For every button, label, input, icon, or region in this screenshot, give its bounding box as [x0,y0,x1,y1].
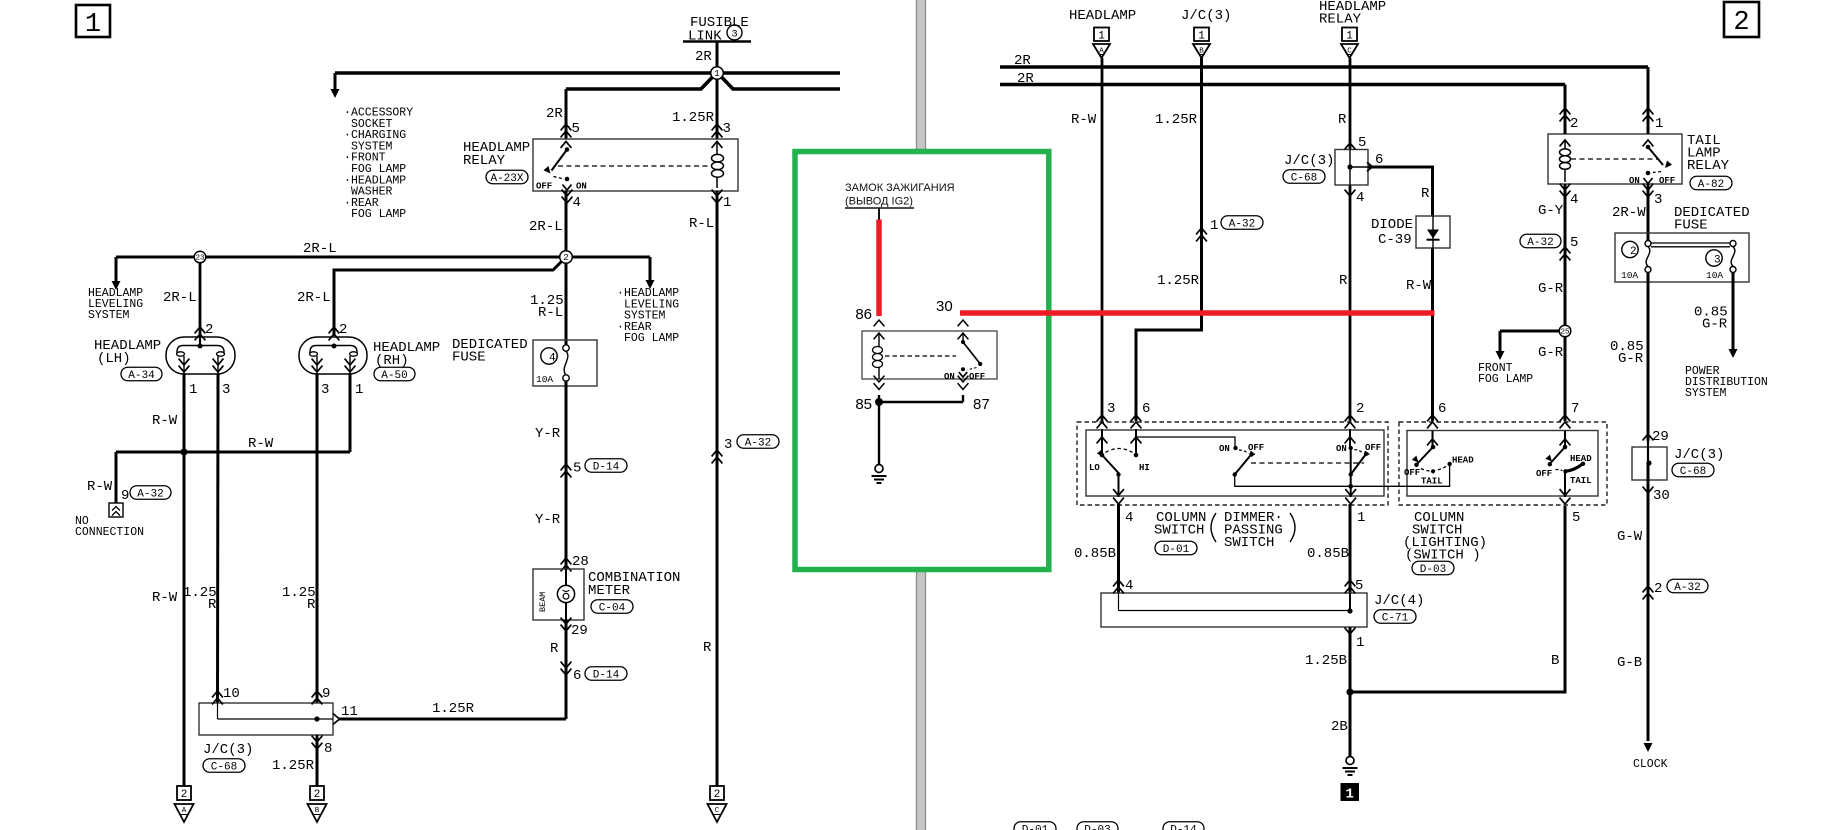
B wire from lighting pin5 [1353,506,1565,692]
dimmer pin 6 [1131,415,1142,421]
svg-text:FOG LAMP: FOG LAMP [351,208,406,221]
terminal C [710,786,724,800]
wire relay pin1 down, R-L [716,191,719,786]
svg-text:2: 2 [563,253,568,263]
svg-text:1: 1 [1356,635,1364,651]
wire R-W to no-connection [115,452,118,503]
svg-text:FOG LAMP: FOG LAMP [1478,373,1533,386]
svg-text:1: 1 [1198,31,1205,43]
svg-text:R-L: R-L [689,216,714,232]
node 1 [711,67,724,80]
wire left fuse down 0.85 G-R [1647,273,1650,442]
svg-text:C: C [715,807,720,815]
svg-text:2: 2 [339,322,347,338]
svg-text:R-W: R-W [152,590,178,606]
annotation relay pin 86 chevrons [874,320,885,326]
wire fusible link to node 1, 2R [716,43,719,74]
tail relay coil [1564,141,1566,149]
svg-text:3: 3 [222,382,230,398]
wire relay pin4 to node 2, 2R-L [565,191,568,251]
J/C(3) C-68 right box [1632,447,1667,480]
svg-text:5: 5 [1572,510,1580,526]
svg-text:SWITCH: SWITCH [1154,523,1204,539]
svg-text:G-R: G-R [1538,345,1564,361]
relay mech dashed link [558,165,712,167]
relay pin 3 [712,124,723,130]
svg-text:ON: ON [1219,444,1230,454]
svg-text:10A: 10A [1621,270,1638,281]
svg-text:1: 1 [189,382,197,398]
svg-text:·: · [617,287,624,300]
column switch lighting dashed box D-03 [1399,422,1607,505]
red wire horizontal to pin 30 [960,310,1435,316]
svg-text:1: 1 [1357,510,1365,526]
svg-text:2: 2 [714,789,721,801]
J/C4 pin 4 [1113,580,1124,586]
wire LH pin3 down 1.25R [216,374,220,703]
page 1 label box [76,5,110,37]
svg-text:3: 3 [731,29,737,41]
svg-text:5: 5 [573,461,581,477]
dedicated fuse page1 box [533,340,597,386]
svg-text:1: 1 [714,69,719,79]
svg-text:2R-L: 2R-L [297,290,331,306]
svg-text:ON: ON [1336,444,1347,454]
svg-text:DIODE: DIODE [1371,217,1413,233]
svg-text:A-50: A-50 [381,370,407,382]
bus wire A page1 [335,71,840,75]
wire right fuse to power distribution [1732,273,1735,351]
relay pin 4 [562,190,573,196]
headlamp LH bulb A-34 [166,337,235,374]
J/C4 pin 1 exit [1349,627,1352,692]
svg-text:3: 3 [1107,401,1115,417]
svg-text:1.25R: 1.25R [1157,273,1200,289]
svg-text:4: 4 [1125,510,1133,526]
dimmer pin 4 exit [1113,489,1124,495]
arrow to accessory socket list [334,73,337,90]
svg-text:86: 86 [855,306,872,323]
bus wire B page1 with diagonals at node 1 [566,77,713,89]
svg-text:29: 29 [571,623,588,639]
svg-text:3: 3 [321,382,329,398]
svg-text:85: 85 [855,396,872,413]
svg-text:2R-L: 2R-L [529,219,563,235]
svg-text:1: 1 [1655,116,1663,132]
svg-text:0.85B: 0.85B [1307,546,1349,562]
wire RH pin3 down 1.25R [316,374,319,703]
fuse element left page2 [1645,241,1651,247]
lighting switch left group [1431,445,1436,450]
wire node2 to headlamp RH pin2 [334,262,562,337]
svg-text:6: 6 [573,668,581,684]
ground ref black square 1 [1341,783,1360,801]
wire tail relay pin3 down 2R-W [1647,184,1650,241]
svg-text:3: 3 [1654,192,1662,208]
svg-text:2R: 2R [1017,71,1034,87]
svg-text:29: 29 [1652,429,1669,445]
svg-text:BEAM: BEAM [538,592,548,612]
lighting pin 6 [1427,415,1438,421]
page divider gray bar [916,0,926,830]
svg-text:2R: 2R [546,106,563,122]
svg-text:OFF: OFF [1404,468,1420,478]
headlamp LH pin2 wire entry [199,336,201,346]
R-L line A-32 connector marks [712,450,723,456]
annotation relay dashed link [885,355,956,357]
svg-text:25: 25 [1560,329,1570,337]
svg-text:10: 10 [223,686,240,702]
svg-text:(LH): (LH) [97,351,131,367]
annotation relay switch [962,333,964,342]
annotation ground symbol [875,465,883,473]
ground symbol page2 [1346,757,1354,765]
combination meter box C-04 [533,569,584,620]
combination meter pin 28 [561,558,572,564]
headlamp RH pins 3,1 [312,366,323,372]
tail relay pin 4 [1560,184,1571,190]
svg-text:CONNECTION: CONNECTION [75,526,144,539]
svg-text:10A: 10A [536,374,553,385]
svg-text:R-W: R-W [152,413,178,429]
tail relay pin1 wire from 2R bus [1647,67,1650,134]
wire dimmer pin1 to J/C4, 0.85B [1349,504,1352,593]
svg-text:5: 5 [572,121,580,137]
svg-text:METER: METER [588,583,631,599]
svg-text:·: · [344,107,351,120]
svg-text:G-W: G-W [1617,529,1643,545]
node 2 [560,251,573,264]
wire node23 to headlamp LH pin2 [199,263,202,336]
svg-text:2R-W: 2R-W [1612,205,1646,221]
fuse element page1 [563,345,569,351]
svg-text:SWITCH: SWITCH [1224,535,1274,551]
combination meter pin 29 [561,618,572,624]
svg-text:C-04: C-04 [599,602,626,614]
dimmer pin 2 [1345,415,1356,421]
svg-text:1.25B: 1.25B [1305,653,1347,669]
svg-text:C-71: C-71 [1382,612,1409,624]
svg-text:4: 4 [549,353,556,365]
dimmer pin 1 exit [1345,489,1356,495]
svg-text:Y-R: Y-R [535,426,561,442]
wire junction to ground 2B [1349,692,1352,757]
J/C(3) C-68 page1 box [199,703,333,735]
svg-text:ON: ON [944,372,955,382]
relay pin 5 [561,124,572,130]
fuse element right page2 [1730,241,1736,247]
tail relay dashed link [1571,158,1658,160]
svg-text:·: · [344,197,351,210]
svg-text:0.85B: 0.85B [1074,546,1116,562]
svg-text:2: 2 [1570,116,1578,132]
svg-text:·: · [344,174,351,187]
svg-text:J/C(3): J/C(3) [1181,8,1231,24]
svg-text:23: 23 [195,255,205,263]
svg-text:ON: ON [576,182,587,192]
wire A down R-W to dimmer pin3 [1101,58,1104,421]
no connection symbol [109,503,123,517]
svg-text:J/C(3): J/C(3) [1284,153,1334,169]
J/C inner bus [217,703,219,719]
svg-text:A-32: A-32 [1527,237,1553,249]
svg-text:2: 2 [1654,581,1662,597]
svg-text:1.25R: 1.25R [1155,112,1198,128]
wire fuse to D-14 Y-R [565,381,568,569]
tail feed line to lighting switch [1351,465,1450,487]
relay coil [716,143,718,154]
wire diode down R-W to lighting pin6 [1431,248,1434,421]
svg-text:D-01: D-01 [1022,824,1049,830]
svg-text:2: 2 [1356,401,1364,417]
svg-text:R: R [703,640,712,656]
svg-text:RELAY: RELAY [1687,158,1730,174]
svg-text:R-L: R-L [538,305,563,321]
svg-text:OFF: OFF [1659,176,1675,186]
wire J/C down to clock G-W G-B [1647,463,1650,741]
svg-text:R: R [1339,273,1348,289]
svg-text:R: R [307,597,316,613]
svg-text:A: A [182,807,187,815]
wire pin11 to combination meter leg 1.25R [339,718,566,721]
svg-text:TAIL: TAIL [1421,477,1443,487]
svg-text:B: B [1551,653,1559,669]
svg-text:A-32: A-32 [137,488,163,500]
svg-text:C-68: C-68 [1680,466,1706,478]
terminal B [310,786,324,800]
svg-text:1.25R: 1.25R [672,110,715,126]
svg-text:·: · [344,152,351,165]
tail relay pin2 wire from 2R bus [1564,85,1567,135]
svg-text:10A: 10A [1706,270,1723,281]
svg-text:2R-L: 2R-L [163,290,197,306]
svg-text:2: 2 [181,789,188,801]
headlamp RH bulb A-50 [299,337,367,374]
svg-text:LO: LO [1089,463,1100,473]
bus wire 2R top page2 [1000,65,1648,69]
svg-text:6: 6 [1142,401,1150,417]
svg-text:2: 2 [205,322,213,338]
svg-text:D-14: D-14 [593,669,620,681]
svg-text:D-01: D-01 [1163,544,1190,556]
svg-text:5: 5 [1570,235,1578,251]
svg-text:R: R [550,641,559,657]
svg-text:1: 1 [1210,218,1218,234]
svg-text:8: 8 [324,741,332,757]
svg-text:R: R [208,597,217,613]
svg-text:7: 7 [1571,401,1579,417]
svg-text:2: 2 [314,789,321,801]
svg-text:2B: 2B [1331,719,1348,735]
svg-text:A-34: A-34 [128,370,155,382]
svg-text:(ВЫВОД IG2): (ВЫВОД IG2) [845,196,913,208]
svg-text:D-03: D-03 [1084,824,1110,830]
svg-text:A-32: A-32 [745,437,771,449]
svg-text:G-Y: G-Y [1538,203,1564,219]
annotation relay pin 87 chevrons [958,376,969,382]
svg-text:ЗАМОК ЗАЖИГАНИЯ: ЗАМОК ЗАЖИГАНИЯ [845,182,955,194]
dimmer pin 3 [1097,415,1108,421]
annotation wires 85-87 to ground [962,395,964,402]
wire node1 branch to relay pin5, 2R [565,89,568,139]
svg-text:2R-L: 2R-L [303,241,337,257]
svg-text:FOG LAMP: FOG LAMP [624,332,679,345]
svg-text:SYSTEM: SYSTEM [1685,387,1727,400]
wire RH pin1 to R-W bus [349,374,352,452]
svg-text:B: B [315,807,320,815]
svg-text:4: 4 [1570,192,1578,208]
svg-text:1: 1 [85,10,101,40]
tail lamp relay box A-82 [1548,134,1682,184]
annotation relay coil [878,333,880,347]
svg-text:1: 1 [1098,31,1105,43]
page 2 label box [1724,2,1759,37]
column switch dimmer solid box [1086,430,1384,496]
svg-text:OFF: OFF [536,182,552,192]
J/C pin 9 [312,691,323,697]
svg-text:C-39: C-39 [1378,232,1412,248]
passing switch [1136,437,1235,446]
svg-text:30: 30 [936,298,953,315]
svg-text:C-68: C-68 [211,761,237,773]
svg-text:R-W: R-W [1406,278,1432,294]
svg-text:D-03: D-03 [1420,564,1446,576]
svg-text:J/C(4): J/C(4) [1374,593,1424,609]
svg-text:G-B: G-B [1617,655,1642,671]
svg-text:G-R: G-R [1618,351,1644,367]
wire meter down R to corner [565,620,568,719]
bottom connector ovals [1014,822,1056,830]
svg-text:A-32: A-32 [1674,582,1700,594]
svg-text:4: 4 [573,195,581,211]
lighting switch right group [1563,445,1568,450]
lighting pin 5 exit [1560,489,1571,495]
svg-text:2R: 2R [695,49,712,65]
annotation relay pin 85 chevrons [874,376,885,382]
tail relay switch [1646,145,1651,150]
tail relay pin 3 [1643,184,1654,190]
svg-text:1: 1 [1346,31,1353,43]
svg-text:OFF: OFF [1536,469,1552,479]
svg-text:ON: ON [1629,176,1640,186]
svg-text:OFF: OFF [969,372,985,382]
wire dimmer pin4 to J/C4, 0.85B [1117,504,1120,593]
svg-text:OFF: OFF [1365,443,1381,453]
svg-text:HI: HI [1139,463,1150,473]
svg-text:C-68: C-68 [1291,172,1317,184]
headlamp LH pins 1,3 [179,366,190,372]
svg-text:R-W: R-W [248,436,274,452]
svg-text:2: 2 [1630,246,1637,258]
column switch lighting solid box [1407,431,1598,497]
svg-text:1: 1 [355,382,363,398]
passing-main dashed link [1251,462,1364,464]
svg-text:3: 3 [724,437,732,453]
svg-text:A-82: A-82 [1698,179,1724,191]
svg-text:6: 6 [1438,401,1446,417]
svg-text:G-R: G-R [1538,281,1564,297]
svg-text:1.25R: 1.25R [272,758,315,774]
svg-text:5: 5 [1355,578,1363,594]
wire LH pin1 down R-W [183,374,186,786]
green highlight box [795,152,1049,570]
annotation relay box [862,331,997,379]
wire tail relay pin4 down G-Y [1564,184,1567,421]
bus wire 2R second page2 [1000,83,1565,87]
wire node23 to headlamp leveling arrow [116,256,194,259]
svg-text:G-R: G-R [1702,317,1728,333]
ground junction dot [1346,688,1353,695]
relay switch [565,147,570,152]
wire node2 to right leveling list arrow [573,256,650,259]
svg-text:D-14: D-14 [1170,824,1197,830]
svg-text:SYSTEM: SYSTEM [88,309,130,322]
svg-text:Y-R: Y-R [535,512,561,528]
J/C4 inner bus [1118,593,1120,611]
svg-text:RELAY: RELAY [1319,12,1362,28]
svg-text:5: 5 [1358,135,1366,151]
wire R-W horizontal [116,451,350,454]
svg-text:J/C(3): J/C(3) [1674,447,1724,463]
node 23 [194,251,206,263]
svg-text:HEAD: HEAD [1452,456,1474,466]
svg-text:9: 9 [121,488,129,504]
svg-text:R: R [1338,112,1347,128]
lighting pin 7 [1560,415,1571,421]
svg-text:R-W: R-W [1071,112,1097,128]
svg-text:2R: 2R [1014,53,1031,69]
svg-text:A-23X: A-23X [490,173,523,185]
svg-text:J/C(3): J/C(3) [203,742,253,758]
wire node25 to front fog lamp [1500,330,1559,333]
dedicated fuse page2 box [1615,233,1749,282]
svg-text:OFF: OFF [1248,443,1264,453]
wire B down 1.25R to dimmer pin6 [1136,58,1202,421]
J/C pin 11 [333,714,339,725]
svg-text:4: 4 [1356,190,1364,206]
relay pin 1 [712,190,723,196]
J/C pin 8 wire to terminal B [316,735,319,786]
svg-text:1: 1 [1345,787,1353,803]
svg-text:R-W: R-W [87,479,113,495]
svg-text:4: 4 [1125,578,1133,594]
fuse bus bar [1651,242,1730,244]
R-W junction [180,448,187,455]
red wire vertical from ignition [878,208,880,221]
svg-text:HEAD: HEAD [1570,454,1592,464]
diode C-39 [1416,216,1450,248]
svg-text:3: 3 [723,121,731,137]
headlamp relay box [533,139,738,191]
svg-text:1.25R: 1.25R [432,701,475,717]
svg-text:·: · [617,321,624,334]
svg-text:FUSE: FUSE [1674,218,1708,234]
svg-text:D-14: D-14 [593,461,620,473]
J/C4 pin 5 [1345,580,1356,586]
svg-text:TAIL: TAIL [1570,476,1592,486]
svg-text:2: 2 [1733,8,1749,38]
dimmer LO-HI selector [1100,453,1105,458]
wire C down R [1349,58,1352,149]
svg-text:30: 30 [1653,488,1670,504]
svg-text:CLOCK: CLOCK [1633,758,1668,771]
svg-text:FUSE: FUSE [452,350,486,366]
annotation relay pin 30 chevrons [958,320,969,326]
svg-text:RELAY: RELAY [463,153,506,169]
svg-text:·: · [344,129,351,142]
column switch dimmer dashed box D-01 [1077,422,1388,505]
svg-text:HEADLAMP: HEADLAMP [1069,8,1136,24]
